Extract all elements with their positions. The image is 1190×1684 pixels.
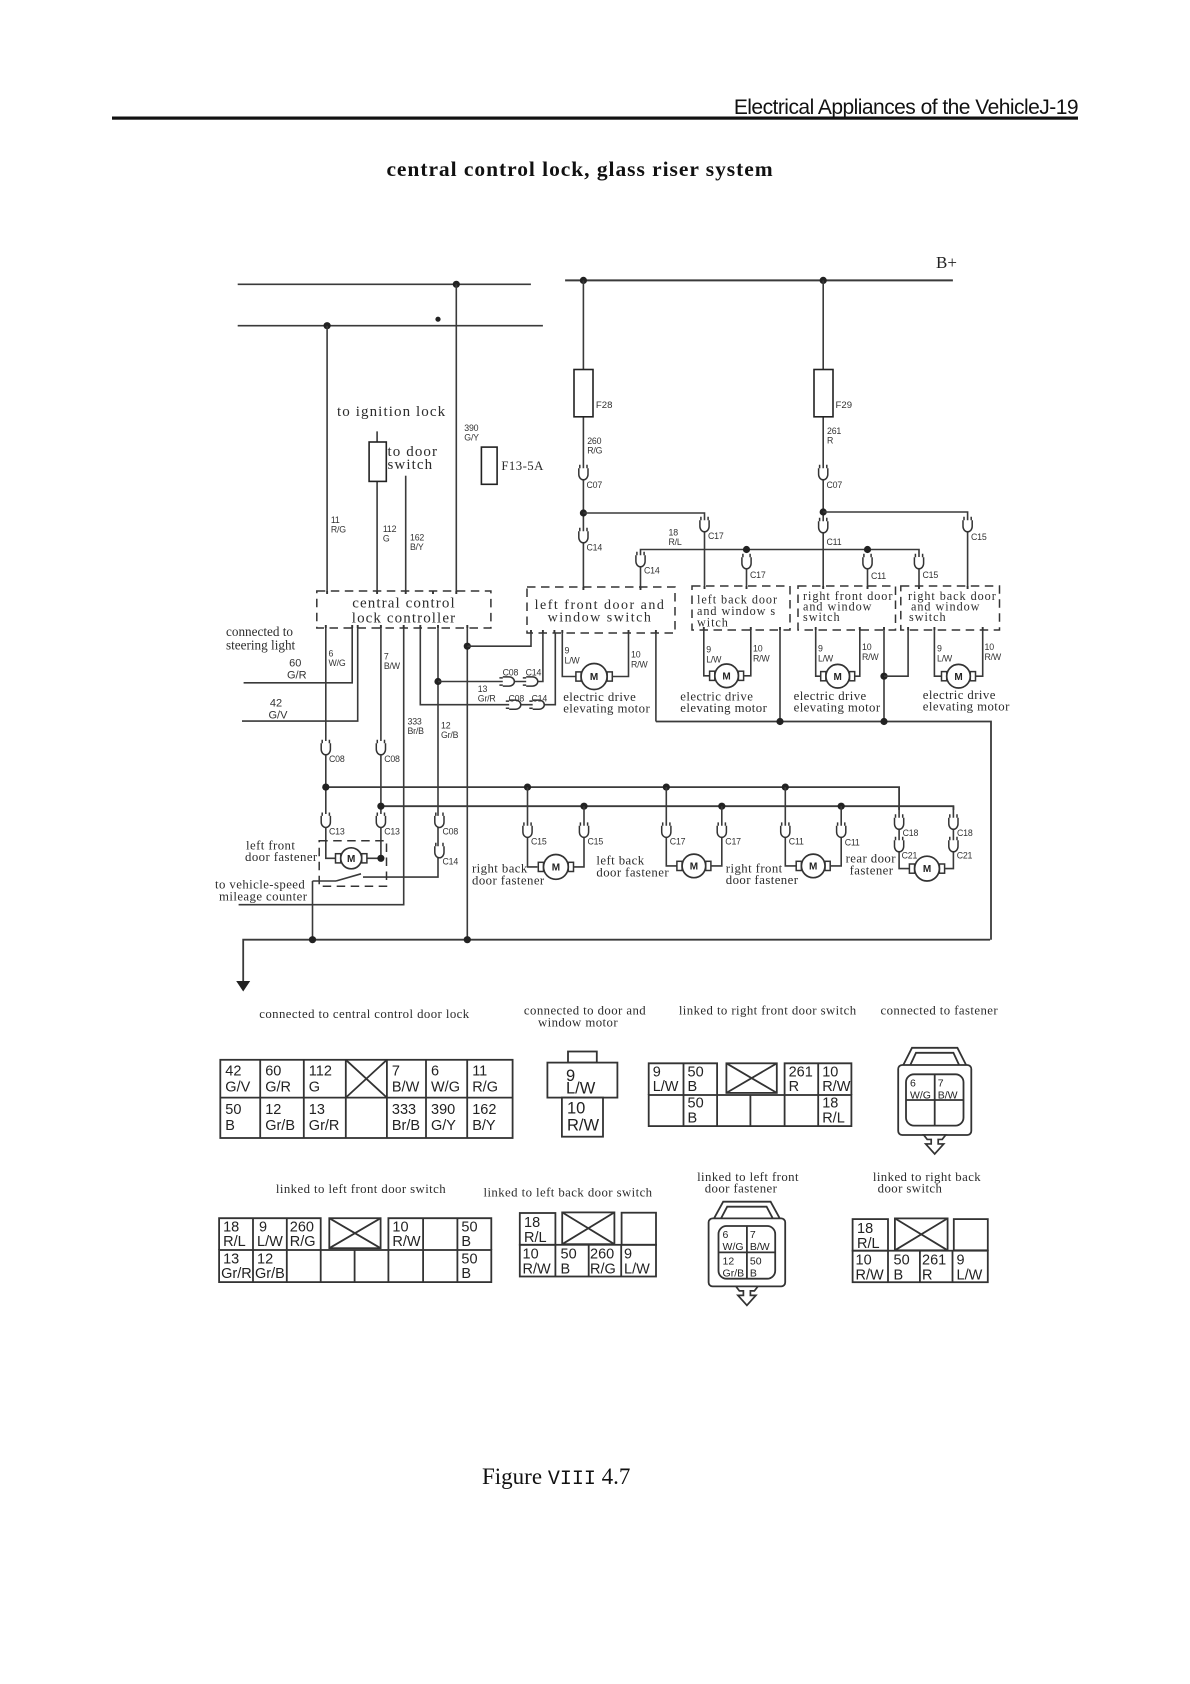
svg-text:C13: C13 — [329, 827, 345, 837]
svg-text:7: 7 — [938, 1077, 944, 1089]
svg-text:10: 10 — [631, 650, 641, 660]
wire top bus segment 2 — [238, 325, 543, 327]
svg-text:G/V: G/V — [225, 1080, 250, 1096]
svg-text:10: 10 — [985, 642, 995, 652]
svg-text:B+: B+ — [936, 253, 957, 272]
svg-text:B/Y: B/Y — [472, 1118, 496, 1134]
svg-text:M: M — [809, 862, 817, 873]
wire branch to switch pin L — [467, 633, 531, 646]
svg-text:112: 112 — [309, 1064, 332, 1080]
svg-text:door fastener: door fastener — [705, 1182, 778, 1196]
svg-text:C11: C11 — [845, 838, 860, 848]
svg-text:B: B — [688, 1079, 698, 1095]
svg-text:R/W: R/W — [523, 1262, 552, 1278]
svg-text:G: G — [383, 534, 390, 544]
svg-text:R/L: R/L — [223, 1234, 246, 1250]
svg-text:162: 162 — [410, 533, 424, 543]
svg-text:60: 60 — [289, 658, 301, 670]
svg-text:L/W: L/W — [818, 654, 834, 664]
svg-text:C17: C17 — [708, 531, 724, 541]
wire box1 pin 9 L/W to motor — [562, 633, 576, 677]
motor M9 rear door fastener — [909, 856, 944, 881]
wire box3 bus pin down — [883, 630, 885, 722]
svg-text:42: 42 — [225, 1064, 241, 1080]
svg-text:F29: F29 — [836, 400, 853, 411]
svg-text:R/W: R/W — [631, 660, 648, 670]
wire fastener feed line B — [381, 806, 954, 810]
svg-text:C15: C15 — [588, 837, 604, 847]
connector C14 left upper — [579, 528, 588, 543]
svg-text:Br/B: Br/B — [408, 726, 425, 736]
svg-text:R/G: R/G — [590, 1262, 616, 1278]
svg-text:50: 50 — [688, 1096, 704, 1112]
node line A tap right front fastener — [782, 784, 789, 791]
svg-text:switch: switch — [388, 457, 434, 473]
connector C17 upper — [700, 517, 709, 532]
svg-text:6: 6 — [329, 649, 334, 659]
node junction box4 link — [880, 673, 887, 680]
svg-text:12: 12 — [265, 1102, 281, 1118]
node B+ tap F28 — [580, 277, 587, 284]
svg-text:G/R: G/R — [287, 670, 307, 682]
svg-text:6: 6 — [431, 1064, 439, 1080]
wire 162 B/Y vertical — [405, 476, 407, 591]
svg-text:261: 261 — [922, 1253, 946, 1269]
svg-text:lock controller: lock controller — [352, 611, 456, 627]
svg-text:C14: C14 — [526, 668, 542, 678]
svg-text:C21: C21 — [902, 851, 918, 861]
svg-text:Gr/B: Gr/B — [265, 1118, 295, 1134]
svg-text:window switch: window switch — [548, 611, 653, 626]
svg-text:C14: C14 — [644, 566, 660, 576]
svg-text:F13-5A: F13-5A — [501, 459, 544, 473]
wire box2 right pin to lower bus — [779, 630, 781, 722]
svg-text:door fastener: door fastener — [245, 850, 318, 864]
connector C08 on 12 Gr/B — [435, 813, 444, 828]
svg-text:M: M — [347, 854, 355, 865]
svg-text:F28: F28 — [596, 400, 613, 411]
svg-text:M: M — [834, 672, 842, 683]
wire box2 pin 9 L/W to motor — [704, 630, 709, 676]
node B+ tap F29 — [820, 277, 827, 284]
wire top bus segment 1 — [238, 283, 531, 285]
svg-text:18: 18 — [669, 528, 679, 538]
connector C18 rear right — [949, 814, 958, 829]
header rule — [112, 117, 1078, 120]
connector C07 right — [819, 465, 828, 480]
connector C21 rear left — [895, 837, 904, 852]
svg-text:C07: C07 — [827, 480, 843, 490]
wire fastener switch to ground bus — [313, 880, 337, 882]
wire box3 pin 9 L/W to motor — [816, 630, 821, 676]
wire 112 G vertical from door switch — [376, 431, 378, 591]
svg-text:M: M — [954, 672, 962, 683]
node line B tap right front fastener — [838, 803, 845, 810]
svg-text:steering light: steering light — [226, 638, 296, 653]
svg-text:C21: C21 — [957, 851, 973, 861]
wire 60 G/R to steering light — [244, 628, 353, 683]
wire box4 left pin link — [884, 630, 908, 676]
motor M1 electric drive elevating — [576, 664, 612, 690]
svg-text:elevating motor: elevating motor — [923, 700, 1010, 714]
svg-text:9: 9 — [957, 1253, 965, 1269]
svg-text:10: 10 — [567, 1100, 585, 1118]
svg-text:260: 260 — [590, 1247, 614, 1263]
connector C08 pin6 — [321, 740, 330, 755]
svg-text:G/Y: G/Y — [464, 433, 479, 443]
svg-text:Gr/R: Gr/R — [478, 694, 496, 704]
svg-text:connected to fastener: connected to fastener — [881, 1004, 999, 1018]
svg-text:C18: C18 — [903, 828, 919, 838]
connector C13 right — [376, 813, 385, 828]
pin ticks controller top — [327, 591, 456, 594]
svg-text:M: M — [722, 671, 730, 682]
node ground bus at fastener switch — [309, 936, 316, 943]
svg-text:elevating motor: elevating motor — [680, 701, 767, 715]
left back door and window switch box U3 — [692, 586, 790, 630]
svg-text:door fastener: door fastener — [726, 873, 799, 887]
svg-text:B/W: B/W — [384, 661, 401, 671]
svg-text:M: M — [552, 863, 560, 874]
connector C14 on branch line — [523, 677, 538, 686]
connector C08 on 13 Gr/R line — [506, 700, 521, 709]
central control lock controller box — [317, 591, 491, 628]
connector C11 lower — [863, 554, 872, 569]
svg-text:10: 10 — [862, 642, 872, 652]
svg-text:B/W: B/W — [750, 1241, 770, 1253]
node junction 18 R/L at C11 — [864, 546, 871, 553]
svg-text:L/W: L/W — [957, 1268, 983, 1284]
svg-text:Gr/B: Gr/B — [441, 730, 459, 740]
svg-text:fastener: fastener — [850, 864, 894, 878]
wire C15 to right back door switch — [918, 568, 920, 586]
wire left back fastener right leg — [711, 806, 722, 866]
svg-text:L/W: L/W — [257, 1234, 283, 1250]
wire C08 to C13 right — [380, 755, 382, 814]
svg-text:C11: C11 — [789, 837, 804, 847]
svg-text:linked to right front door swi: linked to right front door switch — [679, 1004, 857, 1018]
pin ticks box3 — [823, 586, 867, 589]
fuse box on 112 G wire — [369, 442, 386, 481]
wire left back fastener left leg — [666, 787, 677, 866]
node line A tap right back fastener — [524, 784, 531, 791]
wire right back fastener right leg — [574, 806, 584, 867]
motor M4 electric drive elevating — [942, 664, 976, 688]
connector C11 fastener left — [781, 822, 790, 837]
svg-text:B/W: B/W — [392, 1080, 420, 1096]
svg-text:linked to left front door swit: linked to left front door switch — [276, 1182, 446, 1196]
svg-text:W/G: W/G — [910, 1089, 931, 1101]
svg-text:M: M — [690, 862, 698, 873]
connector table central control door lock — [220, 1060, 512, 1138]
motor M8 right front door fastener — [796, 854, 830, 878]
wire C11 to right front door switch — [867, 568, 869, 586]
svg-text:linked to left back door switc: linked to left back door switch — [483, 1186, 652, 1200]
wire 11 R/G vertical — [326, 326, 328, 591]
node line B tap left back fastener — [718, 803, 725, 810]
svg-text:R/L: R/L — [669, 537, 682, 547]
svg-text:W/G: W/G — [431, 1080, 460, 1096]
svg-text:R/L: R/L — [857, 1236, 880, 1252]
connector C11 fastener right — [837, 822, 846, 837]
svg-text:18: 18 — [524, 1215, 540, 1231]
fuse F13-5A — [481, 447, 497, 484]
svg-text:elevating motor: elevating motor — [563, 702, 650, 716]
svg-text:261: 261 — [827, 426, 841, 436]
wire ground bus — [243, 940, 990, 983]
svg-text:C08: C08 — [384, 754, 400, 764]
connector C08 pin7 — [376, 740, 385, 755]
svg-text:C08: C08 — [443, 827, 459, 837]
svg-text:door fastener: door fastener — [596, 866, 669, 880]
svg-text:11: 11 — [331, 515, 340, 525]
motor M2 electric drive elevating — [710, 664, 744, 688]
svg-text:9: 9 — [565, 646, 570, 656]
node bus at box3 pin — [880, 718, 887, 725]
svg-text:R: R — [922, 1268, 932, 1284]
svg-text:G/R: G/R — [265, 1080, 291, 1096]
svg-text:connected to central control d: connected to central control door lock — [259, 1007, 470, 1021]
wire right back fastener left leg — [528, 787, 538, 867]
left front door and window switch box U2 — [527, 587, 675, 633]
svg-text:13: 13 — [309, 1102, 325, 1118]
svg-text:112: 112 — [383, 524, 397, 534]
svg-text:12: 12 — [441, 721, 451, 731]
svg-text:window motor: window motor — [538, 1016, 618, 1030]
pin ticks controller bottom — [326, 625, 468, 628]
svg-text:B/W: B/W — [938, 1089, 958, 1101]
svg-text:central control lock, glass ri: central control lock, glass riser system — [386, 157, 773, 181]
svg-text:B: B — [461, 1266, 471, 1282]
svg-text:60: 60 — [265, 1064, 281, 1080]
node ground bus at pin L chain — [464, 936, 471, 943]
svg-text:L/W: L/W — [937, 654, 953, 664]
motor M5 left front door fastener — [336, 848, 367, 869]
connector C15 lower — [914, 554, 923, 569]
svg-text:390: 390 — [431, 1102, 455, 1118]
wire C08 to C13 left — [325, 755, 327, 814]
svg-text:L/W: L/W — [624, 1262, 650, 1278]
svg-text:C15: C15 — [971, 532, 987, 542]
svg-text:R/G: R/G — [587, 446, 602, 456]
svg-text:C08: C08 — [503, 668, 519, 678]
svg-text:door switch: door switch — [878, 1182, 943, 1196]
svg-text:C18: C18 — [957, 828, 973, 838]
wire 12 Gr/B vertical chain — [363, 628, 438, 877]
wire box2 pin 10 R/W to motor — [744, 630, 751, 676]
svg-text:C15: C15 — [923, 570, 939, 580]
svg-text:to ignition lock: to ignition lock — [337, 404, 446, 420]
svg-text:42: 42 — [270, 698, 282, 710]
wire box4 pin 10 R/W to motor — [976, 630, 983, 676]
wire fastener feed line A — [326, 787, 899, 810]
wire box4 pin 9 L/W to motor — [934, 630, 941, 676]
svg-text:R/W: R/W — [985, 652, 1002, 662]
node junction 12 Gr/B branch — [434, 678, 441, 685]
wire box1 pin 10 R/W to motor — [612, 633, 629, 677]
svg-text:R/W: R/W — [822, 1079, 851, 1095]
svg-text:L/W: L/W — [706, 655, 722, 665]
pin ticks box1 — [583, 587, 640, 590]
svg-text:Electrical Appliances of the V: Electrical Appliances of the VehicleJ-19 — [734, 96, 1078, 119]
svg-text:C14: C14 — [532, 694, 548, 704]
svg-text:M: M — [923, 864, 931, 875]
connector C11 upper — [819, 518, 828, 533]
fastener switch blade — [336, 874, 361, 881]
svg-text:Gr/B: Gr/B — [723, 1267, 745, 1279]
connector table right back door switch — [853, 1219, 988, 1282]
svg-text:12: 12 — [723, 1255, 735, 1267]
svg-text:R/W: R/W — [567, 1117, 600, 1135]
svg-text:10: 10 — [856, 1253, 872, 1269]
wire branch to C17 — [583, 513, 704, 587]
pin ticks box2 — [705, 586, 747, 589]
motor M7 left back door fastener — [677, 854, 711, 878]
svg-text:C14: C14 — [443, 857, 459, 867]
svg-text:R/W: R/W — [392, 1234, 421, 1250]
ground arrow — [236, 981, 250, 992]
connector C14 on 18 R/L left end — [636, 552, 645, 567]
svg-text:C14: C14 — [587, 543, 603, 553]
node line B at 7 B/W — [377, 803, 384, 810]
svg-text:G/V: G/V — [269, 710, 289, 722]
wire C17 to left back door switch — [746, 568, 748, 586]
svg-text:witch: witch — [697, 616, 729, 630]
svg-text:10: 10 — [753, 644, 763, 654]
connector left front door fastener quad plug — [709, 1202, 786, 1287]
wire 13 Gr/R pin via C08 C14 to switch pin D — [420, 628, 555, 705]
connector table left back door switch — [520, 1213, 656, 1277]
svg-text:9: 9 — [624, 1247, 632, 1263]
node bus at box2 pin — [776, 718, 783, 725]
svg-text:B/Y: B/Y — [410, 542, 424, 552]
svg-text:R/W: R/W — [862, 652, 879, 662]
svg-text:switch: switch — [909, 610, 947, 624]
svg-text:B: B — [688, 1111, 698, 1127]
wire branch to C15 — [823, 512, 967, 587]
svg-text:13: 13 — [478, 684, 488, 694]
svg-text:390: 390 — [464, 423, 478, 433]
svg-text:B: B — [750, 1267, 757, 1279]
svg-text:G/Y: G/Y — [431, 1118, 456, 1134]
connector C18 rear left — [895, 814, 904, 829]
svg-text:333: 333 — [392, 1102, 416, 1118]
wire 333 Br/B to mileage counter — [239, 628, 404, 905]
wire rear fastener right leg — [945, 806, 954, 868]
svg-text:C08: C08 — [509, 694, 525, 704]
svg-text:C07: C07 — [587, 480, 603, 490]
svg-text:B: B — [561, 1262, 571, 1278]
connector C17 lower — [742, 554, 751, 569]
svg-text:Gr/B: Gr/B — [255, 1266, 285, 1282]
svg-text:9: 9 — [937, 644, 942, 654]
svg-text:R: R — [827, 436, 833, 446]
wire F29 vertical from B+ to right front door switch — [822, 280, 824, 587]
node junction on bus2 at 11 R/G tap — [324, 322, 331, 329]
svg-text:L/W: L/W — [565, 656, 581, 666]
connector table right front door switch — [649, 1063, 852, 1126]
svg-text:6: 6 — [910, 1077, 916, 1089]
svg-text:Figure VIII 4.7: Figure VIII 4.7 — [482, 1464, 630, 1491]
connector C14 on 13 Gr/R line — [529, 700, 544, 709]
svg-text:B: B — [461, 1234, 471, 1250]
svg-text:333: 333 — [408, 717, 422, 727]
svg-text:L/W: L/W — [566, 1080, 596, 1098]
wire pin L chain down to ground bus — [466, 628, 468, 939]
svg-text:L/W: L/W — [653, 1079, 679, 1095]
node junction on bus1 at 390 G/Y tap — [453, 281, 460, 288]
svg-text:9: 9 — [818, 644, 823, 654]
wire 18 R/L link bus — [641, 550, 920, 568]
svg-text:C11: C11 — [827, 537, 842, 547]
wire right front fastener left leg — [785, 787, 796, 866]
wire 390 G/Y vertical — [455, 284, 457, 591]
svg-text:Gr/R: Gr/R — [221, 1266, 252, 1282]
fuse F28 — [574, 370, 593, 417]
node line A at 6 W/G — [322, 784, 329, 791]
node junction F29 branch — [820, 508, 827, 515]
wire 7 B/W pin to C08 — [380, 628, 382, 741]
stray node dot — [435, 317, 440, 322]
svg-text:260: 260 — [587, 436, 601, 446]
connector table left front door switch — [219, 1218, 491, 1282]
svg-text:R/L: R/L — [524, 1230, 547, 1246]
svg-text:R/W: R/W — [856, 1268, 885, 1284]
svg-text:C17: C17 — [750, 570, 766, 580]
svg-text:50: 50 — [894, 1253, 910, 1269]
svg-text:C08: C08 — [329, 754, 345, 764]
connector C17 fastener right — [717, 822, 726, 837]
node junction F28 branch — [580, 509, 587, 516]
connector door and window motor — [547, 1052, 617, 1137]
node junction fastener motor right tab — [377, 855, 384, 862]
connector C17 fastener left — [662, 822, 671, 837]
svg-text:18: 18 — [857, 1221, 873, 1237]
pin ticks box4 — [919, 586, 968, 589]
svg-text:W/G: W/G — [723, 1241, 744, 1253]
wire box1 right pin to lower bus — [655, 633, 657, 722]
motor M6 right back door fastener — [538, 855, 573, 880]
wire B+ bus — [565, 279, 953, 281]
wire right front fastener right leg — [830, 806, 841, 866]
svg-text:R/G: R/G — [331, 525, 346, 535]
connector fastener quad plug — [898, 1048, 971, 1135]
wire 6 W/G pin to C08 — [325, 628, 327, 741]
wire C13 into fastener motor right — [366, 827, 381, 858]
node junction pin L branch — [464, 643, 471, 650]
svg-text:C17: C17 — [725, 837, 741, 847]
svg-text:7: 7 — [392, 1064, 400, 1080]
svg-text:M: M — [590, 672, 598, 683]
node line A tap left back fastener — [663, 784, 670, 791]
svg-text:18: 18 — [822, 1096, 838, 1112]
svg-text:50: 50 — [750, 1255, 762, 1267]
svg-text:switch: switch — [803, 610, 841, 624]
wire box3 pin 10 R/W to motor — [855, 630, 860, 676]
svg-text:C17: C17 — [670, 837, 686, 847]
svg-text:door fastener: door fastener — [472, 874, 545, 888]
wire 42 G/V to steering light — [242, 628, 358, 721]
wire rear fastener left leg — [899, 806, 909, 869]
connector C07 left — [579, 465, 588, 480]
svg-text:Gr/R: Gr/R — [309, 1118, 340, 1134]
wire lower motor bus — [656, 722, 991, 940]
svg-text:elevating motor: elevating motor — [794, 701, 881, 715]
svg-text:10: 10 — [523, 1247, 539, 1263]
svg-text:mileage counter: mileage counter — [219, 890, 308, 904]
svg-text:6: 6 — [723, 1229, 729, 1241]
svg-text:9: 9 — [706, 645, 711, 655]
